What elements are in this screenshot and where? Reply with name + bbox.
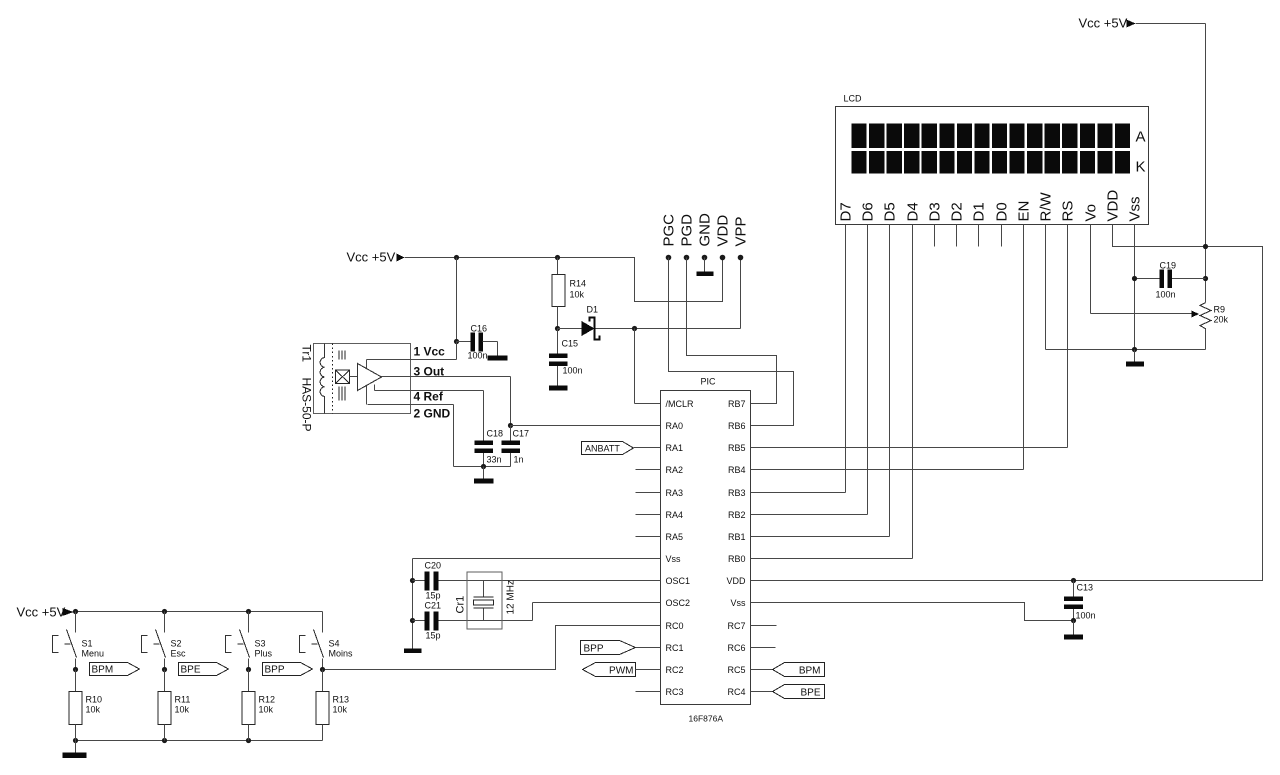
- svg-text:Vo: Vo: [1083, 204, 1100, 222]
- diode D1 (schottky): [558, 328, 582, 330]
- svg-text:RC5: RC5: [727, 665, 745, 675]
- svg-text:ANBATT: ANBATT: [585, 444, 620, 454]
- pin stub RC7: [751, 625, 777, 627]
- svg-text:BPM: BPM: [799, 666, 821, 677]
- svg-text:VDD: VDD: [715, 215, 732, 247]
- svg-text:R/W: R/W: [1038, 192, 1055, 222]
- svg-text:RA0: RA0: [666, 421, 684, 431]
- node junction C21 left: [410, 618, 415, 623]
- svg-text:10k: 10k: [86, 705, 101, 715]
- ground (C15): [549, 386, 568, 391]
- node rail bottom S3: [246, 738, 251, 743]
- svg-text:C16: C16: [471, 324, 488, 334]
- svg-text:BPM: BPM: [92, 665, 114, 676]
- secondary hash marks bottom: [338, 387, 340, 401]
- node junction C13 top: [1071, 578, 1076, 583]
- svg-text:D5: D5: [882, 202, 899, 221]
- wire D7-RB3: [845, 225, 847, 493]
- ground (C13): [1064, 635, 1083, 640]
- svg-text:100n: 100n: [1076, 611, 1096, 621]
- pin stub D2: [956, 225, 958, 247]
- ground (header GND): [697, 272, 714, 277]
- wire RC0 to S4: [323, 626, 661, 670]
- wire switch top rail: [74, 611, 323, 613]
- wire LCD VDD to Vcc: [751, 225, 1263, 581]
- svg-text:D4: D4: [905, 202, 922, 221]
- pin stub RA2: [636, 469, 661, 471]
- wire Vss left: [413, 558, 661, 560]
- LCD backlight row K squares: [852, 151, 867, 174]
- svg-text:Plus: Plus: [255, 649, 273, 659]
- wire D1 cathode to VPP: [596, 328, 741, 330]
- svg-text:RC3: RC3: [666, 687, 684, 697]
- capacitor C15: [557, 329, 559, 354]
- svg-text:R14: R14: [570, 279, 587, 289]
- op IC U1 PIC box: [661, 391, 751, 705]
- potentiometer R9: [1200, 303, 1211, 329]
- resistor R12: [248, 670, 250, 692]
- wire sensor pin2 GND: [368, 404, 454, 406]
- resistor R13: [322, 670, 324, 692]
- svg-text:R12: R12: [259, 695, 276, 705]
- wire sensor pin3 Out: [382, 376, 511, 378]
- wire header GND pin: [704, 258, 706, 272]
- svg-text:RC2: RC2: [666, 665, 684, 675]
- node rail bottom S1: [73, 738, 78, 743]
- wire gnd stub bottom: [75, 741, 77, 753]
- svg-text:10k: 10k: [570, 290, 585, 300]
- svg-text:S3: S3: [255, 639, 266, 649]
- svg-text:Vss: Vss: [730, 598, 746, 608]
- pin stub RA4: [636, 514, 661, 516]
- svg-text:RC0: RC0: [666, 621, 684, 631]
- svg-text:15p: 15p: [426, 591, 441, 601]
- primary coil: [320, 344, 324, 414]
- svg-text:K: K: [1136, 159, 1146, 176]
- pin stub RC6: [751, 647, 776, 649]
- svg-text:1 Vcc: 1 Vcc: [414, 345, 446, 359]
- header pin GND: [702, 255, 708, 261]
- pin stub D1: [978, 225, 980, 247]
- wire Vcc rail to header VDD: [405, 258, 723, 302]
- svg-text:C15: C15: [562, 339, 579, 349]
- svg-text:EN: EN: [1016, 201, 1033, 222]
- header pin PGC: [666, 255, 672, 261]
- node junction Vcc/R14: [555, 255, 560, 260]
- header pin VDD: [720, 255, 726, 261]
- svg-text:D0: D0: [994, 202, 1011, 221]
- wire sensor pin1 Vcc: [367, 359, 457, 361]
- svg-text:16F876A: 16F876A: [689, 714, 724, 724]
- hall multiplier box: [336, 370, 350, 384]
- svg-text:BPE: BPE: [800, 688, 820, 699]
- LCD backlight row A squares: [852, 124, 867, 149]
- net label BPE (S2): [179, 663, 229, 676]
- node junction Out/C17/RA0: [508, 423, 513, 428]
- svg-text:Moins: Moins: [329, 649, 354, 659]
- svg-text:RB6: RB6: [728, 421, 746, 431]
- node junction C20 left: [410, 578, 415, 583]
- ground (buttons): [63, 753, 87, 759]
- svg-text:3 Out: 3 Out: [414, 365, 445, 379]
- svg-text:15p: 15p: [426, 631, 441, 641]
- svg-text:Tr1: Tr1: [300, 345, 314, 363]
- node junction Vcc/VDD line: [1203, 244, 1208, 249]
- svg-text:RB3: RB3: [728, 488, 746, 498]
- pin stub D0: [1001, 225, 1003, 247]
- svg-text:RB0: RB0: [728, 554, 746, 564]
- wire R/W to gnd net: [1045, 225, 1047, 350]
- svg-text:VDD: VDD: [1105, 190, 1122, 222]
- svg-text:C18: C18: [487, 429, 504, 439]
- svg-text:1n: 1n: [514, 455, 524, 465]
- header pin VPP: [738, 255, 744, 261]
- svg-text:100n: 100n: [468, 351, 488, 361]
- svg-text:OSC1: OSC1: [666, 576, 691, 586]
- svg-text:RB1: RB1: [728, 532, 746, 542]
- node rail top S2: [162, 609, 167, 614]
- wire Out to RA0: [511, 425, 661, 427]
- svg-text:100n: 100n: [1156, 290, 1176, 300]
- svg-text:PWM: PWM: [609, 666, 633, 677]
- svg-text:C19: C19: [1160, 261, 1177, 271]
- amp supply vertical: [366, 360, 368, 405]
- wire LCD Vss down: [1134, 225, 1136, 350]
- svg-text:PGC: PGC: [661, 214, 678, 247]
- wire D6-RB2: [867, 225, 869, 515]
- svg-text:D1: D1: [587, 305, 599, 315]
- svg-text:Esc: Esc: [171, 649, 187, 659]
- svg-text:RC6: RC6: [727, 643, 745, 653]
- svg-text:RC4: RC4: [727, 687, 745, 697]
- secondary hash marks top: [338, 351, 340, 360]
- node junction S4: [320, 667, 325, 672]
- node junction S1: [73, 667, 78, 672]
- svg-text:RC7: RC7: [727, 621, 745, 631]
- svg-text:OSC2: OSC2: [666, 598, 691, 608]
- ground (osc): [404, 649, 422, 654]
- node junction Vss/gnd line: [1132, 347, 1137, 352]
- node rail top S3: [246, 609, 251, 614]
- svg-text:RA5: RA5: [666, 532, 684, 542]
- node junction S2: [162, 667, 167, 672]
- crystal Cr1: [483, 581, 485, 597]
- svg-text:GND: GND: [697, 213, 714, 247]
- svg-text:VPP: VPP: [733, 216, 750, 246]
- svg-text:R10: R10: [86, 695, 103, 705]
- svg-text:D1: D1: [971, 202, 988, 221]
- svg-text:20k: 20k: [1214, 315, 1229, 325]
- node junction Vcc/C19: [1203, 276, 1208, 281]
- svg-text:Vcc +5V: Vcc +5V: [347, 250, 396, 265]
- header pin PGD: [684, 255, 690, 261]
- capacitor C21: [413, 620, 425, 622]
- core dotted line: [332, 344, 334, 414]
- resistor R11: [164, 670, 166, 692]
- net label BPP (S3): [263, 663, 313, 676]
- svg-text:PIC: PIC: [701, 377, 717, 387]
- wire PGC to RB6: [669, 258, 794, 426]
- svg-text:RA3: RA3: [666, 488, 684, 498]
- wire OSC2: [532, 603, 534, 621]
- svg-text:RA4: RA4: [666, 510, 684, 520]
- pin stub D3: [934, 225, 936, 247]
- switch S3 Plus: [248, 612, 250, 633]
- net label BPM (RC5): [751, 669, 773, 671]
- capacitor C17: [510, 426, 512, 441]
- svg-text:10k: 10k: [259, 705, 274, 715]
- switch S4 Moins: [322, 612, 324, 633]
- wire D4-RB0: [912, 225, 914, 559]
- wire X-box to amp: [350, 376, 358, 378]
- ground (LCD Vss): [1126, 362, 1144, 367]
- wire Vcc drop to C16 and sensor pin1: [456, 258, 458, 342]
- svg-text:S2: S2: [171, 639, 182, 649]
- svg-text:12 MHz: 12 MHz: [506, 580, 517, 614]
- node junction C19 left: [1132, 276, 1137, 281]
- wire PIC Vss right: [751, 603, 1074, 621]
- resistor R10: [75, 670, 77, 692]
- svg-text:D2: D2: [949, 202, 966, 221]
- svg-text:Vcc +5V: Vcc +5V: [17, 605, 66, 620]
- svg-text:C21: C21: [425, 601, 442, 611]
- resistor R14: [557, 258, 559, 275]
- capacitor C16: [457, 341, 471, 343]
- svg-text:VDD: VDD: [726, 576, 746, 586]
- svg-text:D6: D6: [860, 202, 877, 221]
- svg-text:Vss: Vss: [666, 554, 682, 564]
- svg-text:Vcc +5V: Vcc +5V: [1079, 16, 1128, 31]
- transducer Tr1 box: [314, 344, 411, 414]
- svg-text:A: A: [1136, 129, 1146, 146]
- net label BPP (RC1): [581, 641, 636, 655]
- svg-text:S4: S4: [329, 639, 340, 649]
- svg-text:C20: C20: [425, 561, 442, 571]
- pin stub RC3: [636, 691, 661, 693]
- svg-text:RA2: RA2: [666, 465, 684, 475]
- net label ANBATT: [582, 442, 634, 455]
- net label BPM (S1): [90, 663, 140, 676]
- svg-text:D3: D3: [927, 202, 944, 221]
- pin stub RA5: [636, 536, 661, 538]
- wire to /MCLR: [634, 329, 636, 404]
- svg-text:BPP: BPP: [265, 665, 285, 676]
- svg-text:D7: D7: [838, 202, 855, 221]
- svg-text:S1: S1: [82, 639, 93, 649]
- net label BPE (RC4): [751, 691, 773, 693]
- svg-text:R13: R13: [333, 695, 350, 705]
- switch S2 Esc: [164, 612, 166, 633]
- svg-text:BPE: BPE: [181, 665, 201, 676]
- svg-text:R11: R11: [175, 695, 191, 705]
- svg-text:Menu: Menu: [82, 649, 105, 659]
- svg-text:C17: C17: [513, 429, 530, 439]
- svg-text:33n: 33n: [487, 455, 502, 465]
- svg-text:C13: C13: [1077, 583, 1094, 593]
- node rail top S1: [73, 609, 78, 614]
- node junction gnd net: [481, 464, 486, 469]
- node junction R14/C15/D1: [555, 326, 560, 331]
- svg-text:PGD: PGD: [679, 214, 696, 247]
- wire EN-RB4: [1023, 225, 1025, 470]
- svg-text:100n: 100n: [563, 366, 583, 376]
- ground (C18/C17): [474, 479, 494, 484]
- wire Vss gnd stub: [1134, 350, 1136, 362]
- wire gnd stub: [483, 467, 485, 479]
- svg-text:RS: RS: [1060, 201, 1077, 222]
- node junction D1/VPP/MCLR: [632, 326, 637, 331]
- svg-text:R9: R9: [1214, 305, 1226, 315]
- pin stub RA3: [636, 492, 661, 494]
- svg-text:RC1: RC1: [666, 643, 684, 653]
- svg-text:HAS-50-P: HAS-50-P: [300, 378, 314, 432]
- capacitor C20: [413, 580, 425, 582]
- wire D5-RB1: [889, 225, 891, 537]
- wire C13 gnd stub: [1073, 621, 1075, 635]
- node junction Vcc/C16 drop: [454, 255, 459, 260]
- svg-text:RA1: RA1: [666, 443, 684, 453]
- svg-text:10k: 10k: [175, 705, 190, 715]
- svg-text:LCD: LCD: [844, 94, 863, 104]
- node junction S3: [246, 667, 251, 672]
- node rail bottom S2: [162, 738, 167, 743]
- wire RS-RB5: [1067, 225, 1069, 448]
- wire switch bottom rail: [76, 740, 323, 742]
- svg-text:10k: 10k: [333, 705, 348, 715]
- ground (C16): [488, 356, 508, 361]
- capacitor C18: [475, 441, 494, 446]
- svg-text:BPP: BPP: [584, 644, 604, 655]
- svg-text:Cr1: Cr1: [455, 596, 467, 614]
- svg-text:RB4: RB4: [728, 465, 746, 475]
- wire Vo to R9 wiper: [1090, 225, 1092, 314]
- svg-text:RB7: RB7: [728, 399, 746, 409]
- svg-text:2 GND: 2 GND: [414, 407, 451, 421]
- svg-text:RB2: RB2: [728, 510, 746, 520]
- capacitor C19: [1135, 278, 1160, 280]
- wire sensor pin4 Ref: [374, 385, 376, 391]
- capacitor C13: [1073, 581, 1075, 597]
- svg-text:RB5: RB5: [728, 443, 746, 453]
- svg-text:4 Ref: 4 Ref: [414, 390, 444, 404]
- wire PGD to RB7: [687, 258, 777, 404]
- net label PWM (RC2): [583, 663, 636, 677]
- wire Vcc down right: [1136, 23, 1206, 25]
- svg-text:/MCLR: /MCLR: [666, 399, 695, 409]
- switch S1 Menu: [75, 612, 77, 633]
- op-amp triangle: [358, 364, 382, 391]
- LCD module box: [836, 107, 1149, 225]
- node junction C13 bottom: [1071, 618, 1076, 623]
- svg-text:Vss: Vss: [1127, 196, 1144, 221]
